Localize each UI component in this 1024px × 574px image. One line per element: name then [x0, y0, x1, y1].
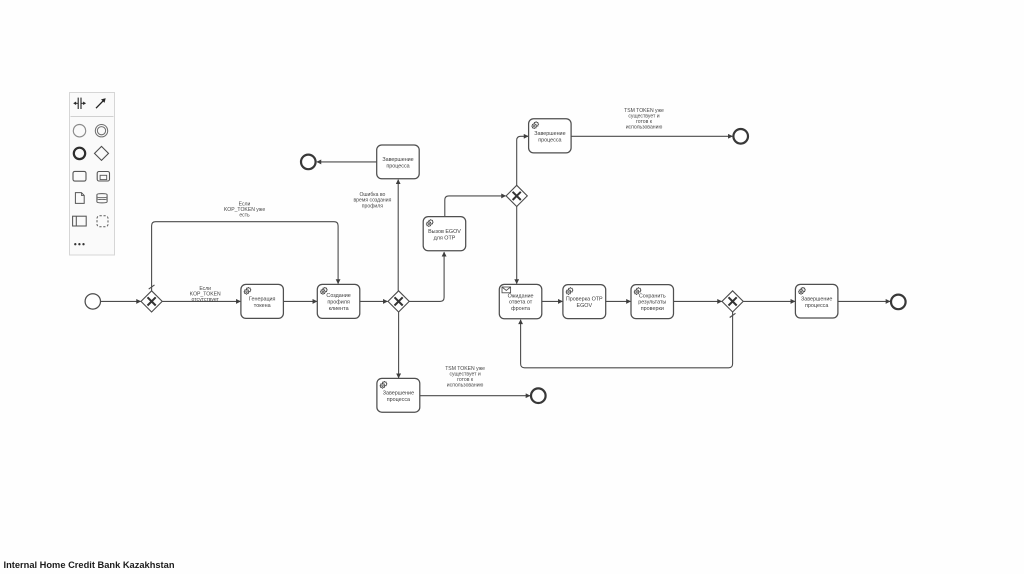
service icon (gear) of task Генерация токена	[244, 287, 252, 295]
task Генерация токена	[241, 284, 284, 318]
task Сохранить результаты проверки	[631, 285, 674, 319]
task Завершение процесса (нижний)	[377, 378, 420, 412]
wire Проверка OTP EGOV to Сохранить результаты	[606, 300, 631, 302]
palette gateway icon	[95, 146, 109, 160]
svg-text:проверки: проверки	[641, 306, 664, 312]
wire Генерация токена to Создание профиля клиента	[283, 300, 317, 302]
wire G1 bypass to task Создание профиля клиента (Если KOP_TOKEN уже есть)	[149, 222, 338, 291]
palette global connect tool icon	[96, 98, 106, 108]
palette more dots	[74, 243, 85, 245]
svg-text:процесса: процесса	[805, 303, 828, 309]
gateway G1 exclusive	[141, 291, 162, 312]
label Ошибка во время создания профиля	[353, 192, 391, 210]
task Завершение процесса (верхний средний)	[377, 145, 420, 179]
svg-text:процесса: процесса	[386, 163, 409, 169]
svg-text:Завершение: Завершение	[534, 131, 565, 137]
wire G4 to task Завершение процесса (правый)	[743, 300, 795, 302]
palette data object icon	[75, 193, 84, 204]
svg-text:Вызов EGOV: Вызов EGOV	[428, 229, 461, 235]
task Завершение процесса (правый)	[795, 284, 838, 318]
wire Завершение процесса to end event E1	[317, 161, 377, 163]
end event E1	[301, 155, 316, 170]
palette start event icon	[73, 125, 85, 137]
svg-text:результаты: результаты	[638, 300, 666, 306]
wire Завершение процесса to end event E3	[838, 300, 890, 302]
svg-text:использованию: использованию	[626, 124, 663, 130]
start event	[85, 294, 100, 309]
svg-text:Проверка OTP: Проверка OTP	[566, 297, 603, 303]
service icon (gear) of task Проверка OTP EGOV	[566, 287, 574, 295]
svg-text:Создание: Создание	[326, 293, 350, 299]
svg-text:Завершение: Завершение	[382, 157, 413, 163]
palette participant (pool) icon	[73, 216, 87, 226]
wire Завершение процесса to end event E2	[571, 135, 732, 137]
palette data store icon	[97, 194, 107, 203]
label Если KOP_TOKEN отсутствует	[190, 286, 221, 303]
gateway G4 exclusive	[722, 291, 743, 312]
palette task icon	[73, 171, 86, 181]
svg-text:ответа от: ответа от	[509, 300, 533, 306]
gateway G3 exclusive	[506, 185, 527, 206]
wire G1 to task Генерация токена	[162, 300, 240, 302]
svg-text:Генерация: Генерация	[249, 297, 276, 303]
svg-text:Сохранить: Сохранить	[639, 293, 666, 299]
label TSM TOKEN уже существует и готов к использованию (верх)	[624, 108, 664, 130]
task Проверка OTP EGOV	[563, 285, 606, 319]
task Вызов EGOV для OTP	[423, 217, 466, 251]
wire Сохранить результаты to gateway G4	[674, 300, 722, 302]
svg-text:Завершение: Завершение	[801, 297, 832, 303]
palette end event icon	[74, 148, 85, 159]
wire start event to gateway G1	[101, 300, 141, 302]
footer text	[4, 560, 175, 570]
svg-text:токена: токена	[254, 303, 271, 309]
end event E3	[891, 295, 906, 310]
service icon (gear) of task Завершение процесса (верхний правый)	[531, 121, 539, 129]
service icon (gear) of task Завершение процесса (нижний)	[380, 381, 388, 389]
receive icon (envelope) of task Ожидание ответа от фронта	[502, 287, 511, 293]
label TSM TOKEN уже существует и готов к использованию (низ)	[445, 366, 485, 389]
service icon (gear) of task Создание профиля клиента	[320, 287, 328, 295]
wire Вызов EGOV для OTP up to gateway G3	[445, 196, 506, 217]
wire Ожидание ответа to Проверка OTP EGOV	[542, 300, 563, 302]
service icon (gear) of task Вызов EGOV для OTP	[426, 219, 434, 227]
svg-text:EGOV: EGOV	[577, 303, 593, 309]
wire G2 down to task Завершение процесса (нижний)	[398, 312, 400, 378]
palette group icon	[97, 216, 108, 227]
wire Создание профиля клиента to gateway G2	[360, 300, 388, 302]
wire G4 loopback to Ожидание ответа от фронта (default)	[521, 312, 736, 368]
palette intermediate event icon	[95, 125, 107, 137]
palette separator	[71, 116, 114, 118]
wire Завершение процесса to end event E4	[420, 395, 530, 397]
svg-text:профиля: профиля	[327, 300, 350, 306]
svg-text:Ожидание: Ожидание	[508, 293, 534, 299]
svg-text:клиента: клиента	[329, 306, 349, 312]
wire G3 down to task Ожидание ответа от фронта	[516, 207, 518, 284]
svg-text:процесса: процесса	[387, 397, 410, 403]
task Завершение процесса (верхний правый)	[529, 119, 572, 153]
svg-text:Завершение: Завершение	[383, 390, 414, 396]
service icon (gear) of task Сохранить результаты проверки	[634, 287, 642, 295]
wire G2 up to task Завершение процесса (ошибка)	[397, 180, 399, 291]
svg-text:профиля: профиля	[362, 203, 383, 209]
palette panel	[70, 93, 115, 256]
wire G2 right-up to task Вызов EGOV для OTP	[409, 252, 444, 301]
svg-text:есть: есть	[239, 212, 250, 218]
svg-text:для OTP: для OTP	[434, 235, 456, 241]
service icon (gear) of task Завершение процесса (правый)	[798, 287, 806, 295]
task Ожидание ответа от фронта	[499, 284, 542, 318]
wire G3 up to task Завершение процесса (верхний правый)	[517, 136, 528, 185]
end event E2	[733, 129, 748, 144]
palette space tool icon	[73, 98, 85, 109]
gateway G2 exclusive	[388, 291, 409, 312]
svg-text:отсутствует: отсутствует	[192, 297, 220, 303]
label Если KOP_TOKEN уже есть	[224, 201, 265, 218]
svg-text:Internal Home Credit Bank Kaza: Internal Home Credit Bank Kazakhstan	[4, 560, 175, 570]
svg-text:процесса: процесса	[538, 137, 561, 143]
svg-text:использованию: использованию	[447, 382, 484, 388]
task Создание профиля клиента	[317, 284, 360, 318]
end event E4	[531, 388, 546, 403]
palette subprocess icon	[97, 172, 109, 182]
svg-text:фронта: фронта	[511, 306, 530, 312]
